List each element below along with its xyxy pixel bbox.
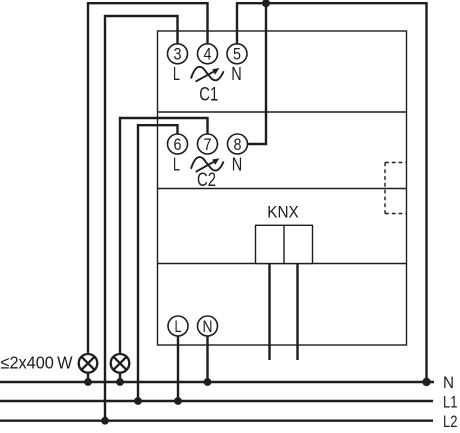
svg-text:5: 5 [233, 46, 241, 64]
svg-text:N: N [443, 373, 454, 392]
lamp E1 [79, 354, 98, 373]
svg-text:8: 8 [234, 136, 242, 154]
wire: terminal L down to L1 line [177, 336, 179, 401]
terminal 4 [198, 44, 218, 64]
wire: terminal 5 (N) up over top right down to N line [237, 3, 427, 382]
svg-text:L: L [173, 153, 180, 174]
terminal 5 [227, 44, 247, 64]
net N line [0, 381, 434, 383]
divider below C2 section [158, 188, 407, 190]
divider below KNX section [158, 263, 407, 265]
wire: KNX bus conductor 2 [296, 264, 298, 361]
junction lamp E2 / N [116, 378, 124, 386]
junction right N [422, 378, 430, 386]
svg-text:L: L [173, 63, 180, 84]
dimmer symbol C2 [191, 157, 224, 172]
svg-text:N: N [232, 153, 243, 174]
divider below C1 section [158, 111, 407, 113]
wire: terminal 6 up left to L1 drop [138, 125, 178, 401]
wire: terminal N down to N line [206, 336, 208, 382]
svg-text:3: 3 [174, 46, 182, 64]
junction terminal N / N [204, 378, 212, 386]
svg-text:L: L [175, 318, 182, 336]
svg-text:L2: L2 [443, 412, 458, 431]
junction terminal L / L1 [174, 397, 182, 405]
net L1 line [0, 400, 433, 402]
wire: terminal 7 up left to lamp E2 [120, 118, 208, 354]
svg-text:KNX: KNX [267, 204, 299, 222]
dashed expansion slot [385, 163, 407, 214]
svg-text:≤2x400 W: ≤2x400 W [1, 353, 73, 373]
device outline [158, 31, 407, 345]
junction L2 [101, 417, 109, 425]
terminal L [168, 316, 188, 336]
svg-text:N: N [203, 318, 213, 336]
wire: terminal 3 up over top to L2 drop [105, 16, 178, 421]
junction lamp E1 / N [84, 378, 92, 386]
svg-text:C1: C1 [199, 83, 218, 105]
wire: terminal 4 up over top to lamp E1 [88, 3, 208, 354]
svg-text:N: N [231, 63, 242, 84]
svg-text:L1: L1 [443, 392, 458, 411]
svg-text:4: 4 [204, 46, 212, 64]
svg-text:7: 7 [204, 136, 212, 154]
wire: N branch down to terminal 8 [248, 3, 267, 144]
dimmer symbol C1 [191, 67, 224, 82]
wire: lamp E2 bottom to N line [119, 373, 121, 383]
junction at N branch [262, 0, 270, 7]
junction wire6 / L1 [134, 397, 142, 405]
svg-text:C2: C2 [197, 169, 216, 191]
terminal N [198, 316, 218, 336]
wire: KNX bus conductor 1 [268, 264, 270, 361]
KNX bus terminal block [256, 225, 313, 263]
net L2 line [0, 420, 433, 422]
terminal 7 [198, 134, 218, 154]
svg-text:6: 6 [174, 136, 182, 154]
terminal 3 [168, 44, 188, 64]
terminal 6 [168, 134, 188, 154]
terminal 8 [228, 134, 248, 154]
lamp E2 [111, 354, 130, 373]
wire: lamp E1 bottom to N line [87, 373, 89, 383]
